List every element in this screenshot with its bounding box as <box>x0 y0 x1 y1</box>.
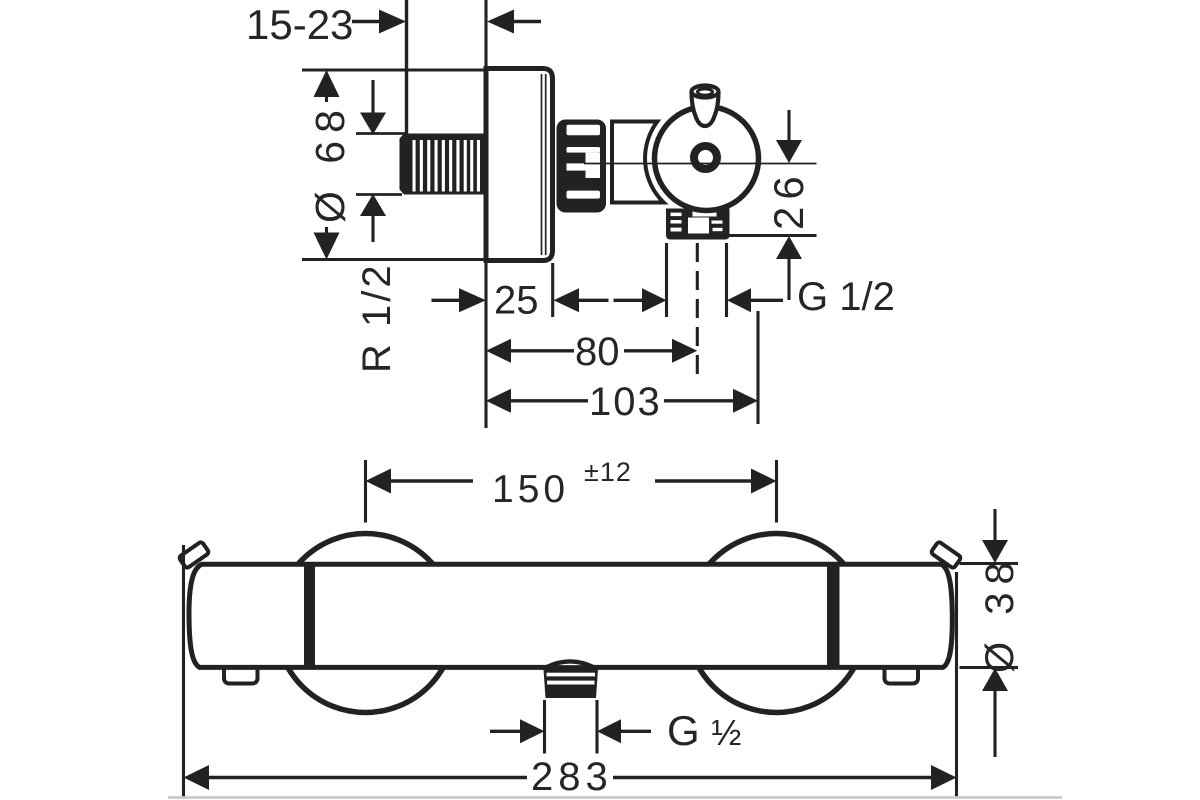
dimension 15-23 left-pointing arrow with tail <box>487 10 514 34</box>
wall reference line VL1 <box>405 0 408 134</box>
left escutcheon circle <box>276 534 455 713</box>
dim 150 left arrow and line <box>366 469 392 494</box>
svg-text:Ø 38: Ø 38 <box>978 554 1022 673</box>
dia68 dimension line lower segment with down arrow <box>325 227 328 240</box>
mixer bar body <box>189 564 952 667</box>
pipe top extension line <box>356 132 407 135</box>
dim 150 right extension line <box>775 460 778 523</box>
dim 283 left extension line <box>182 545 185 798</box>
hub ring <box>694 146 717 169</box>
left bottom tab <box>224 663 258 684</box>
bottom G1/2 right extension line <box>595 700 598 754</box>
dim 150 left extension line <box>364 460 367 523</box>
threaded wall pipe (black with white thread slits) <box>400 134 487 195</box>
spout opening ellipse <box>692 86 719 98</box>
wall flange (escutcheon, side view) <box>486 69 553 261</box>
svg-text:G 1/2: G 1/2 <box>797 275 895 319</box>
dia68 dimension line upper segment with up arrow <box>314 70 340 97</box>
thermostat head circle <box>655 107 759 211</box>
bottom G1/2 left tail and arrow <box>490 730 525 733</box>
right S-union wedge tab <box>931 541 962 569</box>
dim 25 left arrow with tail <box>554 288 580 312</box>
svg-text:G ½: G ½ <box>667 707 741 754</box>
svg-text:103: 103 <box>589 380 662 424</box>
bottom G1/2 left extension line <box>543 700 546 754</box>
svg-text:±12: ±12 <box>584 457 632 487</box>
dia38 up arrow and lower tail <box>982 668 1008 691</box>
dim 283 right extension line <box>955 572 958 798</box>
dia68 bottom extension line <box>302 258 486 261</box>
bottom outlet threads <box>544 669 599 698</box>
right joint band <box>827 565 840 668</box>
R1/2 pipe diameter lower arrow <box>360 194 386 216</box>
knurled union nut <box>557 120 607 213</box>
pipe bottom extension line <box>356 193 402 196</box>
outlet-right extension line <box>725 243 728 317</box>
dim 103 row <box>486 389 511 413</box>
svg-text:Ø 68: Ø 68 <box>307 102 353 223</box>
G1/2 right arrow with tail <box>727 288 751 312</box>
svg-text:150: 150 <box>492 468 569 511</box>
svg-text:R 1/2: R 1/2 <box>355 262 399 373</box>
valve body (rect with concave arc right edge) <box>612 122 664 203</box>
left joint band <box>304 565 315 668</box>
dia38 top extension line <box>960 562 1019 565</box>
top spout neck <box>692 92 719 126</box>
outlet-left extension line <box>665 243 668 317</box>
dim 26 upper tail and down arrow <box>787 110 790 143</box>
R1/2 pipe diameter upper arrow <box>371 80 374 116</box>
G1/2 left arrow (points right at outlet-left line) <box>614 299 646 302</box>
dim 80 row <box>486 339 511 363</box>
right escutcheon circle <box>687 534 866 713</box>
dia68 top extension line <box>302 68 486 71</box>
bottom G1/2 right arrow and tail <box>597 719 621 743</box>
dim 26 lower extension line <box>726 234 817 237</box>
flange inner face lines <box>541 74 543 255</box>
right bottom tab <box>885 663 919 684</box>
flange-face reference line VL2 (runs down through dimension rows) <box>484 0 487 428</box>
flange-right extension line <box>551 263 554 317</box>
bottom outlet block (behind circle) <box>666 209 730 240</box>
svg-text:25: 25 <box>494 279 539 323</box>
bar bottom edge over bump <box>540 665 600 670</box>
dim 283 line and right arrow <box>613 776 933 779</box>
outlet collar bump <box>546 661 594 667</box>
spout bore ellipse <box>698 89 713 95</box>
103 right extension line <box>756 311 759 424</box>
horizontal centerline <box>584 163 817 165</box>
faint cropped frame line at bottom <box>168 796 1062 799</box>
dim 25 row: tail and right arrow into wall line <box>432 299 463 302</box>
dim 150 line and right arrow <box>655 479 753 482</box>
svg-text:15-23: 15-23 <box>246 1 353 48</box>
svg-text:26: 26 <box>765 169 812 230</box>
left S-union wedge tab <box>179 541 210 569</box>
svg-text:80: 80 <box>575 330 620 374</box>
svg-text:283: 283 <box>531 755 613 799</box>
dim 26 up arrow and tail <box>776 236 802 259</box>
dia38 upper tail and down arrow <box>993 509 996 543</box>
dimension 15-23 leader and right-pointing arrow <box>352 20 381 23</box>
dim 283 left arrow <box>184 765 210 790</box>
dia38 bottom extension line <box>960 666 1019 669</box>
outlet dashed centerline <box>696 243 699 374</box>
